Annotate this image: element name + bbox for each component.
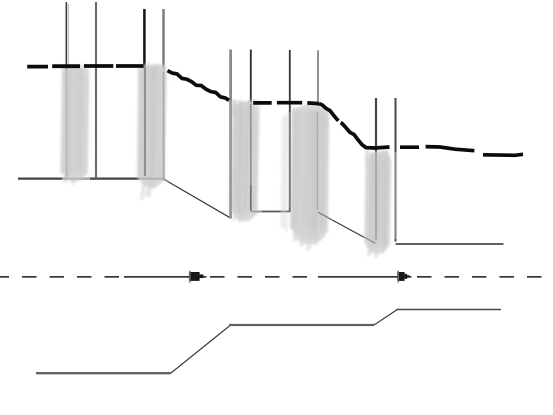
wavefunction smudge 1 (well 1) bbox=[62, 66, 88, 183]
barrier 2 bbox=[95, 2, 97, 179]
energy level slope B-C (hand wavy) bbox=[319, 104, 338, 121]
step rise 2 bbox=[374, 310, 397, 325]
step rise 1 bbox=[171, 326, 230, 374]
wavefunction smudge 4 (wells around barrier 7-8) bbox=[283, 107, 329, 249]
barrier 9 bbox=[375, 98, 377, 243]
barrier 10 bbox=[395, 98, 397, 242]
barrier 8 bbox=[317, 50, 319, 212]
potential step curve bbox=[36, 372, 171, 374]
barrier 6 bbox=[250, 50, 252, 212]
wire: conduction-band floor 3 bbox=[396, 243, 504, 245]
faint barrier lines showing through smudges bbox=[62, 67, 396, 243]
energy level slope A-B (hand wavy) bbox=[168, 71, 230, 101]
growth-axis solid run 2 bbox=[318, 276, 412, 278]
growth-axis solid run 1 bbox=[124, 276, 207, 278]
arrowhead 1 bbox=[189, 272, 204, 281]
growth-axis dashed middle run bbox=[210, 276, 318, 278]
step plateau 3 bbox=[396, 309, 501, 311]
wire: field slope 1 bbox=[164, 179, 231, 218]
energy level C dashes bbox=[400, 147, 523, 156]
growth-axis dashed right run bbox=[417, 276, 553, 278]
barrier 4 bbox=[162, 9, 164, 181]
wire: conduction-band floor 2 bbox=[251, 211, 291, 213]
barrier 3 bbox=[143, 9, 146, 179]
wavefunction smudge 3 (wells around barrier 5-6) bbox=[231, 101, 259, 220]
barrier 5 bbox=[229, 50, 232, 219]
growth-axis dashed line left run bbox=[0, 276, 124, 278]
energy level A dashes bbox=[27, 64, 143, 68]
barrier 1 bbox=[65, 2, 67, 179]
wavefunction smudge 5 (well 9-10) bbox=[366, 150, 390, 256]
wire: conduction-band floor 1 bbox=[18, 177, 164, 179]
wire: field slope 2 bbox=[318, 212, 376, 244]
energy level B dashes bbox=[253, 101, 319, 106]
wavefunction smudge 2 (over barriers 3-4) bbox=[138, 64, 165, 198]
step plateau 2 bbox=[229, 324, 374, 326]
barrier 7 bbox=[289, 50, 291, 211]
arrowhead 2 bbox=[397, 272, 409, 281]
